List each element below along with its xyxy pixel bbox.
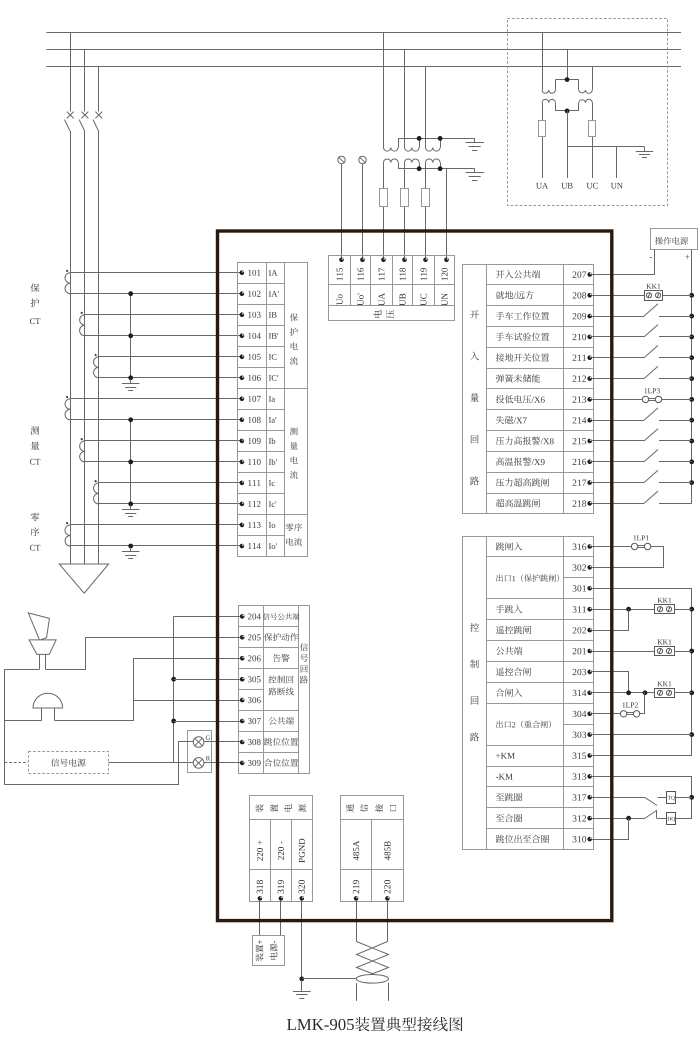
label plus (685, 255, 689, 259)
junction plus bus row 215 (689, 439, 694, 444)
terminal 317 (587, 795, 592, 800)
pin number 312 (573, 815, 586, 821)
header char 源 (298, 804, 306, 812)
wire 307 to common (174, 721, 240, 723)
terminal 302 (587, 565, 592, 570)
terminal 201 (587, 649, 592, 654)
wire measuring CT ground bus (130, 420, 132, 504)
wire vt UC drop (425, 66, 427, 148)
header char 电 (284, 804, 292, 811)
junction plus bus row 216 (689, 459, 694, 464)
label protection CT (30, 284, 40, 325)
input label 214 (496, 416, 527, 424)
junction control bus 314 (689, 690, 694, 695)
contact switch row 216 (592, 450, 692, 462)
ground measuring CT (122, 505, 139, 516)
junction PGND (299, 977, 304, 982)
terminal 101 (240, 270, 245, 275)
signal label 308 (264, 738, 298, 746)
protection CT phase B (80, 312, 85, 336)
pin label Io (269, 522, 275, 528)
wire phase C drop from bus (98, 66, 100, 112)
label operation power (655, 237, 688, 245)
horn alarm (28, 613, 56, 669)
wire PGND to cable shield (302, 978, 357, 980)
PT primary winding AB (542, 80, 567, 94)
wire G lamp to minus rail (5, 742, 194, 785)
pin number 106 (248, 375, 260, 381)
measuring CT phase C (94, 480, 99, 504)
junction 314/304 (643, 690, 648, 695)
pin number 202 (573, 627, 586, 633)
fuse FU1 (380, 189, 388, 207)
wire horn to minus rail (5, 669, 40, 671)
lamp box (188, 731, 212, 773)
wire PT UC primary drop (592, 66, 594, 90)
input label 209 (496, 312, 549, 320)
header char 装 (255, 804, 263, 812)
terminal 311 (587, 607, 592, 612)
pin number 313 (573, 773, 586, 779)
pin number 319 (278, 880, 284, 893)
pin number 215 (573, 438, 587, 444)
terminal 202 (587, 628, 592, 633)
pin number 118 (400, 268, 406, 280)
pin number 101 (248, 270, 260, 276)
wire PT un lead (616, 147, 618, 178)
pin label IC (269, 354, 277, 360)
pin number 206 (248, 655, 261, 661)
twisted pair wire B (357, 942, 389, 975)
junction on 110 wire (128, 460, 133, 465)
label zero-seq CT (30, 513, 40, 551)
open-delta terminal Uo2 (359, 156, 366, 259)
pin label Ic (269, 480, 275, 486)
junction plus bus row 217 (689, 480, 694, 485)
terminal 115 (339, 258, 344, 263)
wire 314 to KK1 (592, 692, 655, 694)
junction 312/310 (626, 816, 631, 821)
group label measuring current (290, 427, 298, 478)
junction plus bus row 211 (689, 355, 694, 360)
pin number 201 (573, 648, 586, 654)
measuring CT phase B (80, 438, 85, 462)
wire cable core 2 (388, 983, 390, 1001)
terminal 304 (587, 712, 592, 717)
junction vt secondary c (438, 166, 443, 171)
pin number 213 (573, 396, 587, 402)
wire cable core 1 (356, 983, 358, 1001)
terminal 305 (240, 677, 245, 682)
pin label PGND (299, 839, 305, 863)
wire 485B drop (387, 901, 389, 942)
pin number 302 (573, 564, 586, 570)
output label 315 (496, 753, 515, 759)
terminal 111 (240, 481, 245, 486)
wire signal power plus to R lamp (109, 762, 194, 764)
pin number 305 (248, 676, 261, 682)
input label 215 (496, 437, 554, 445)
pin label IA (269, 270, 278, 276)
pin number 315 (573, 753, 586, 759)
wire signal minus rail (4, 669, 6, 785)
terminal 303 (587, 732, 592, 737)
terminal 319 (279, 896, 284, 901)
wire 206 to bell (55, 659, 241, 721)
terminal 116 (360, 258, 365, 263)
signal power source box (29, 752, 109, 774)
fuse FU ua (539, 121, 546, 137)
pin number 211 (573, 355, 586, 361)
output label 310 (496, 835, 549, 843)
wire 318 to aux power (259, 901, 261, 936)
terminal block current inputs (238, 262, 308, 556)
pin label UN (442, 293, 448, 306)
PT primary winding BC (567, 80, 592, 94)
wire CT measuring S2 to terminal (70, 419, 242, 421)
wire 311 to KK1 (592, 609, 655, 611)
wire 310 to 312 (592, 819, 629, 840)
wire 201 to KK1 (592, 651, 655, 653)
pin number 110 (248, 459, 260, 465)
pin number 308 (248, 739, 261, 745)
wire G lamp to 308 (204, 741, 240, 743)
pin label IB (269, 312, 277, 318)
wire 319 to aux power (280, 901, 282, 936)
trip coil TQ (667, 792, 676, 804)
terminal 105 (240, 355, 245, 360)
junction PT secondary common (565, 109, 570, 114)
pin number 204 (248, 613, 261, 619)
terminal 120 (444, 258, 449, 263)
pin number 109 (248, 438, 260, 444)
terminal 313 (587, 774, 592, 779)
terminal 306 (240, 698, 245, 703)
output label outlet1 (496, 574, 559, 582)
wire vt primary star link (398, 138, 475, 140)
signal label 204 (263, 613, 300, 620)
wire CT protection S1 to terminal (99, 356, 242, 358)
pin number 212 (573, 376, 586, 382)
pin label IC' (269, 375, 278, 381)
wire PT neutral link (567, 146, 644, 148)
wire PT ua lead (542, 103, 544, 178)
title LMK-905 (287, 1017, 463, 1031)
vt primary winding A (384, 138, 399, 151)
terminal 307 (240, 719, 245, 724)
terminal 308 (240, 740, 245, 745)
wire KK1 to plus bus (663, 295, 692, 297)
wire bell to minus rail (5, 720, 42, 722)
wire KK1 to control bus c (674, 692, 692, 694)
terminal 205 (240, 635, 245, 640)
contact switch row 211 (592, 345, 692, 357)
terminal 119 (423, 258, 428, 263)
section label signal circuit (300, 643, 308, 683)
wire 204 to common (174, 616, 240, 618)
breaker QF phase C (93, 112, 102, 131)
junction control bus 303 (689, 732, 694, 737)
wire 1LP3 to plus bus (662, 399, 692, 401)
wire protection CT ground bus (130, 294, 132, 378)
input label 212 (496, 374, 540, 382)
output label 317 (496, 793, 522, 801)
output label 312 (496, 814, 522, 822)
wire UA lead to terminal 117 (383, 163, 385, 260)
terminal 108 (240, 418, 245, 423)
input label 216 (496, 457, 545, 465)
wire CT measuring S1 to terminal (85, 440, 242, 442)
output label 314 (496, 688, 522, 696)
pin label UC (421, 294, 427, 306)
junction plus bus row 208 (689, 293, 694, 298)
wire CT protection S1 to terminal (70, 272, 242, 274)
terminal 109 (240, 439, 245, 444)
pin label 485B (384, 841, 390, 860)
pin number 104 (248, 333, 261, 339)
feeder arrow (59, 564, 108, 593)
terminal 309 (240, 761, 245, 766)
wire signal power minus dashed (5, 762, 28, 764)
wire 1LP1 to 302 (592, 547, 664, 568)
pin number 316 (573, 544, 587, 550)
wire contact to HQ (657, 818, 667, 820)
wire CT protection S2 to terminal (99, 377, 242, 379)
twisted pair wire A (357, 942, 389, 975)
label minus (650, 256, 652, 259)
wire 305 to common (174, 679, 240, 681)
switch KK1 manual close (655, 681, 675, 697)
signal label control-loop-break (268, 675, 293, 695)
pin number 317 (573, 794, 587, 800)
pin label 485A (353, 841, 359, 861)
pin label Ia' (269, 417, 276, 423)
terminal 215 (587, 439, 592, 444)
wire CT protection S2 to terminal (70, 293, 242, 295)
pin number 314 (573, 690, 587, 696)
pin label IB' (269, 333, 278, 339)
terminal 110 (240, 460, 245, 465)
terminal 209 (587, 314, 592, 319)
wire vt UA drop (383, 32, 385, 148)
wire phase A drop from bus (70, 32, 72, 112)
wire 205 to horn (46, 638, 241, 670)
contact switch row 209 (592, 304, 692, 317)
wire CT measuring S1 to terminal (99, 482, 242, 484)
ground PT neutral (636, 147, 653, 158)
pin number 210 (573, 334, 587, 340)
header char 置 (270, 804, 277, 812)
pin number 301 (573, 585, 586, 591)
pin number comm 220 (384, 880, 390, 893)
header char 接 (375, 804, 383, 812)
bus L3 (46, 66, 681, 68)
terminal 208 (587, 293, 592, 298)
terminal 301 (587, 586, 592, 591)
control circuit terminal block (463, 536, 594, 850)
junction plus bus row 212 (689, 376, 694, 381)
contact blade close position (645, 811, 657, 819)
pin number 320 (299, 880, 305, 893)
terminal 318 (258, 896, 263, 901)
pin number 105 (248, 354, 260, 360)
terminal 112 (240, 502, 245, 507)
terminal 214 (587, 418, 592, 423)
terminal 106 (240, 376, 245, 381)
wire CT protection S2 to terminal (85, 335, 242, 337)
terminal 207 (587, 272, 592, 277)
terminal comm 219 (354, 896, 359, 901)
terminal 210 (587, 335, 592, 340)
zero-sequence CT (65, 522, 70, 546)
terminal 206 (240, 656, 245, 661)
junction 305 common (171, 677, 176, 682)
wire signal common vertical (173, 616, 175, 763)
wire phase C feeder (98, 131, 100, 564)
signal label 206 (273, 654, 290, 662)
open-delta terminal Uo (338, 156, 345, 259)
pin number 114 (248, 543, 261, 549)
wire CT measuring S2 to terminal (85, 461, 242, 463)
terminal 203 (587, 670, 592, 675)
wire PT ub lead (567, 111, 569, 178)
label UN (611, 183, 623, 189)
bus L1 (46, 32, 681, 34)
header char 信 (360, 804, 368, 812)
measuring CT phase A (65, 396, 70, 420)
wire 306 to bell net (134, 700, 240, 702)
pin label Ic' (269, 501, 276, 507)
junction 314/203 (626, 690, 631, 695)
pin label Uo' (358, 294, 364, 306)
wire UB lead to terminal 118 (404, 163, 406, 260)
wire R lamp to 309 (204, 762, 240, 764)
pin number 205 (248, 634, 261, 640)
pin number 217 (573, 480, 587, 486)
wire PT UA primary drop (542, 32, 544, 90)
aux power source box (253, 936, 285, 966)
fuse FU3 (422, 189, 430, 207)
link 1LP3 (642, 388, 661, 402)
label aux power minus (270, 941, 278, 960)
wire CT measuring S1 to terminal (70, 398, 242, 400)
pin number 120 (442, 268, 448, 280)
vt secondary winding b (405, 159, 420, 169)
wire KK1 to control bus b (674, 651, 692, 653)
pin number 207 (573, 271, 587, 277)
pin number comm 219 (353, 880, 359, 893)
wire CT protection S1 to terminal (85, 314, 242, 316)
pin number 113 (248, 522, 260, 528)
header char 口 (390, 805, 397, 811)
output label 313 (496, 774, 513, 780)
vt primary winding C (426, 138, 441, 151)
cable shield ellipse (356, 975, 388, 984)
operation power box (651, 229, 698, 250)
wire 304 to 1LP2 (592, 713, 621, 715)
contact switch row 218 (592, 491, 692, 503)
switch KK1 manual trip (655, 598, 675, 614)
pin label Ia (269, 396, 275, 402)
output label 316 (496, 542, 523, 550)
wire CT zero-sequence S1 to terminal (70, 524, 242, 526)
header char 通 (346, 804, 354, 812)
pin number 108 (248, 417, 260, 423)
terminal 217 (587, 480, 592, 485)
group label voltage (373, 310, 394, 318)
junction on 102 wire (128, 291, 133, 296)
bell alarm (33, 693, 63, 720)
wire KK1 to control bus a (674, 609, 692, 611)
signal terminal block (238, 606, 309, 774)
pin label UB (400, 294, 406, 306)
terminal comm 220 (385, 896, 390, 901)
wire 317 to contact (592, 797, 645, 799)
switch KK1 remote/local (645, 284, 663, 301)
junction plus bus row 209 (689, 314, 694, 319)
terminal 113 (240, 523, 245, 528)
label UC (587, 183, 598, 189)
ground PGND (293, 980, 311, 999)
output label 311 (496, 605, 523, 613)
pin number 306 (248, 697, 261, 703)
wire op power plus bus (691, 250, 693, 504)
wire 485A drop (356, 901, 358, 942)
device power terminal block (250, 796, 313, 902)
pin number 309 (248, 760, 261, 766)
pin number 303 (573, 732, 586, 738)
group label zero-seq current (286, 523, 302, 545)
pin number 307 (248, 718, 261, 724)
terminal 103 (240, 312, 245, 317)
wire vt secondary star link (398, 168, 475, 170)
junction coil bus TQ (689, 795, 694, 800)
terminal 117 (381, 258, 386, 263)
junction on 112 wire (128, 502, 133, 507)
PT secondary winding a (542, 99, 567, 111)
wire 301 to control bus (592, 589, 692, 756)
vt secondary winding a (384, 159, 399, 169)
wire phase B drop from bus (84, 49, 86, 111)
terminal 312 (587, 816, 592, 821)
terminal 310 (587, 837, 592, 842)
lamp R close indicator (193, 756, 210, 768)
contact switch row 212 (592, 366, 692, 378)
pin label Ib' (269, 459, 277, 465)
pin number 311 (573, 606, 586, 612)
input label 213 (496, 395, 545, 403)
bus L2 (46, 49, 681, 51)
terminal 211 (587, 355, 592, 360)
link 1LP2 (620, 702, 639, 717)
wire PT uc lead (592, 103, 594, 178)
pin label Io' (269, 543, 277, 549)
switch KK1 common (655, 639, 675, 655)
junction on 114 wire (128, 544, 133, 549)
input label 208 (496, 291, 534, 299)
pin number 102 (248, 291, 260, 297)
terminal 213 (587, 397, 592, 402)
terminal 315 (587, 753, 592, 758)
pin label 220+ (257, 840, 263, 860)
junction plus bus row 214 (689, 418, 694, 423)
output label 202 (496, 626, 531, 634)
terminal 204 (240, 614, 245, 619)
pin number 119 (421, 268, 427, 280)
signal label 307 (268, 717, 293, 725)
terminal block voltage inputs (329, 255, 456, 320)
pin number 209 (573, 313, 587, 319)
